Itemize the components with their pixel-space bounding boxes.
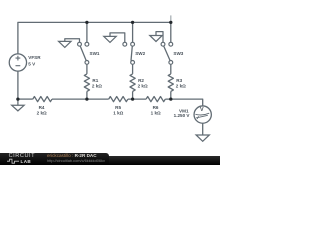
wire SW3 pole to R3 (170, 64, 172, 74)
wire R1 bottom (86, 91, 88, 99)
node A below R1 (85, 97, 88, 100)
wire SW2 ground link (110, 33, 125, 42)
svg-text:2 kΩ: 2 kΩ (37, 110, 47, 115)
voltage source VFSR (9, 54, 26, 71)
svg-text:VFSR: VFSR (28, 55, 41, 60)
svg-text:R4: R4 (39, 105, 45, 110)
node junction top SW2 (131, 21, 134, 24)
svg-text:SW3: SW3 (173, 51, 183, 56)
svg-text:R1: R1 (92, 78, 98, 83)
svg-text:SW2: SW2 (135, 51, 145, 56)
svg-text:2 kΩ: 2 kΩ (138, 84, 148, 89)
svg-text:R5: R5 (115, 105, 121, 110)
watermark logo box (0, 153, 109, 165)
resistor R4 (33, 97, 52, 102)
switch SW3 (161, 42, 173, 64)
wire bottom rail segment 1 (18, 98, 33, 100)
node junction source bottom (16, 97, 19, 100)
node junction top SW1 (85, 21, 88, 24)
ground at SW1 (59, 41, 71, 47)
voltmeter VM1 (194, 106, 211, 123)
wire bottom rail segment 3 (128, 98, 146, 100)
svg-text:1 kΩ: 1 kΩ (113, 110, 123, 115)
resistor R1 (84, 74, 89, 92)
wire SW1 pole to R1 (86, 64, 88, 74)
wire R2 bottom (132, 91, 134, 99)
wire bottom rail segment 2 (52, 98, 109, 100)
wire bottom rail segment 4 to voltmeter (165, 99, 202, 106)
wire SW3 top drop (170, 22, 172, 42)
svg-text:2 kΩ: 2 kΩ (92, 84, 102, 89)
wire SW1 ground link (65, 39, 80, 42)
wire SW2 top drop (132, 22, 134, 42)
wire source bottom (17, 71, 19, 99)
wire SW3 ground link (156, 32, 163, 43)
wire R3 bottom (170, 91, 172, 99)
ground at SW2 (104, 36, 116, 42)
ground below source (12, 99, 24, 111)
ground at SW3 (150, 36, 162, 42)
logo LAB text (21, 159, 32, 164)
switch SW2 (123, 42, 135, 64)
wire SW1 top drop (86, 22, 88, 42)
watermark line 1 (47, 153, 97, 158)
svg-text:V: V (200, 107, 204, 113)
watermark line 2 (47, 158, 105, 163)
ground below voltmeter (196, 135, 209, 141)
voltmeter needle and scale (195, 113, 209, 119)
wire voltmeter bottom (202, 123, 204, 135)
resistor R5 (109, 97, 128, 102)
wire SW2 pole to R2 (132, 64, 134, 74)
resistor R3 (168, 74, 173, 92)
svg-text:SW1: SW1 (90, 51, 100, 56)
svg-text:R3: R3 (176, 78, 182, 83)
svg-text:1.250 V: 1.250 V (174, 113, 191, 118)
logo CIRCUIT text (9, 153, 36, 159)
node junction top SW3 (169, 21, 172, 24)
wire stub above rail at SW3 (170, 15, 172, 22)
svg-text:5 V: 5 V (28, 61, 36, 66)
logo waveform (6, 158, 38, 166)
node B below R2 (131, 97, 134, 100)
resistor R6 (146, 97, 165, 102)
svg-text:R2: R2 (138, 78, 144, 83)
switch SW1 (78, 42, 89, 64)
resistor R2 (130, 74, 135, 92)
svg-text:2 kΩ: 2 kΩ (176, 84, 186, 89)
watermark bar (0, 156, 220, 165)
wire top rail (18, 22, 171, 53)
node C below R3 (169, 97, 172, 100)
svg-text:1 kΩ: 1 kΩ (151, 110, 161, 115)
svg-text:R6: R6 (153, 105, 159, 110)
